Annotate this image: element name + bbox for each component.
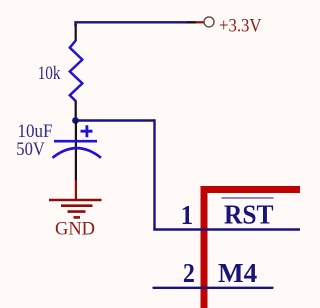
- svg-text:RST: RST: [224, 199, 274, 229]
- wire: vertical down to pin 1: [153, 119, 155, 229]
- ground stem (dark red): [75, 180, 77, 200]
- wire: top horizontal from resistor to power port: [76, 22, 189, 26]
- RST overline (active low): [222, 197, 274, 199]
- capacitor C1 plus sign: [81, 125, 93, 137]
- capacitor C1 lead through body (black): [75, 121, 77, 182]
- svg-text:1: 1: [181, 200, 194, 230]
- resistor R1 zigzag body: [70, 41, 83, 102]
- power port P1 pin (black segment): [187, 21, 196, 23]
- svg-text:2: 2: [183, 258, 195, 288]
- wire: junction to the right: [76, 119, 155, 121]
- svg-text:50V: 50V: [16, 139, 45, 160]
- ground bar 2: [61, 204, 93, 207]
- capacitor C1 top plate: [54, 140, 97, 143]
- resistor R1 bottom lead (black): [75, 101, 77, 122]
- svg-text:+3.3V: +3.3V: [219, 15, 262, 36]
- ground bar 4: [74, 216, 81, 219]
- svg-text:M4: M4: [218, 258, 257, 288]
- sheet symbol border (thick red): [204, 190, 300, 308]
- ground bar 1: [49, 199, 102, 202]
- power port +3.3V circle: [204, 17, 214, 27]
- junction dot: [72, 117, 79, 124]
- ground bar 3: [68, 210, 86, 213]
- resistor R1 top lead (black): [75, 24, 77, 41]
- pin 1 wire (RST): [153, 228, 300, 230]
- capacitor C1 bottom plate (arc): [53, 148, 102, 158]
- svg-text:10k: 10k: [38, 63, 61, 84]
- pin 2 wire (M4): [154, 287, 273, 289]
- svg-text:GND: GND: [55, 219, 95, 240]
- power port +3.3V red stub: [196, 21, 205, 23]
